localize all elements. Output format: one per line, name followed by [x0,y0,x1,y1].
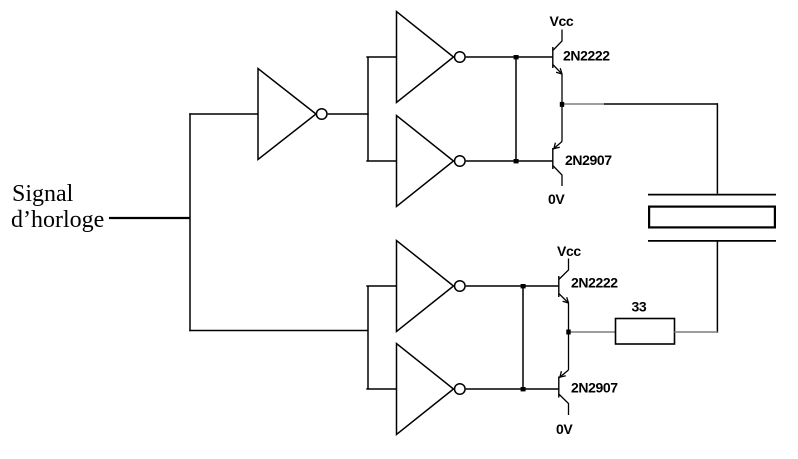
crystal X1 top plate [648,194,776,196]
inverter U5 [397,344,466,435]
wire: U5 output [466,388,523,390]
transistor Q2 2N2907 [553,104,562,186]
svg-text:33: 33 [632,299,647,315]
svg-text:2N2222: 2N2222 [571,275,618,291]
wire: resistor to crystal column (gray) [675,331,718,333]
junction: top bracket upper [514,55,519,59]
inverter U1 [258,69,327,160]
svg-text:0V: 0V [548,191,565,207]
svg-text:2N2222: 2N2222 [563,48,610,64]
wire: bottom branch feed [189,330,367,332]
node: Signal d'horloge label [11,181,104,233]
wire: input trunk vertical [189,113,191,331]
wire: bottom pair input bracket [367,286,369,389]
wire: bracket to U3 input [366,160,396,162]
junction: top output node [560,102,564,107]
wire: crystal bottom down [716,241,718,332]
wire: to Q1 base [516,56,553,58]
junction: bottom bracket upper [521,284,526,288]
inverter U4 [397,241,466,332]
transistor Q3 2N2222 [559,259,569,333]
wire: U4 output [466,285,523,287]
wire: bottom output bracket [522,286,524,389]
resistor R1 [616,319,675,345]
svg-text:2N2907: 2N2907 [565,152,612,168]
transistor Q4 2N2907 [559,332,569,415]
crystal X1 body [649,207,775,228]
wire: bracket to U5 input [366,388,396,390]
inverter U2 [397,12,466,103]
svg-text:d’horloge: d’horloge [11,207,104,233]
wire: bracket to U2 input [366,56,396,58]
svg-text:0V: 0V [556,421,573,437]
junction: bottom bracket lower [521,387,526,391]
crystal X1 bottom plate [648,240,776,242]
svg-text:Signal: Signal [12,181,74,207]
wire: top output gray segment [562,103,604,105]
wire: bracket to U4 input [366,285,396,287]
wire: U1 output to top pair input bracket [328,113,369,115]
wire: top branch to inverter U1 [189,113,258,115]
wire: down to crystal top [716,103,718,194]
junction: bottom output node [566,330,570,335]
junction: top bracket lower [514,159,519,163]
svg-text:2N2907: 2N2907 [571,380,618,396]
wire: to Q2 base [516,160,553,162]
svg-text:Vcc: Vcc [550,13,574,29]
wire: U2 output [466,56,516,58]
wire: to Q4 base [523,388,559,390]
wire: node to resistor R1 (gray) [569,331,616,333]
wire: to Q3 base [523,285,559,287]
svg-text:Vcc: Vcc [557,243,581,259]
wire: top pair input bracket [367,57,369,161]
wire: top output black segment [604,103,718,105]
wire: clock input [109,217,190,219]
wire: U3 output [466,160,516,162]
inverter U3 [397,116,466,207]
wire: top output bracket [515,57,517,161]
transistor Q1 2N2222 [553,30,562,105]
